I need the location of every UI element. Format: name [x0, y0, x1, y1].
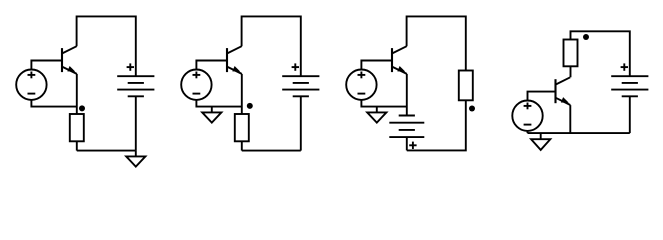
node dot	[247, 103, 253, 109]
wire R2 to bottom rail	[241, 141, 243, 150]
wire Q4 emitter down	[569, 105, 571, 133]
wire Q2 collector riser	[242, 16, 301, 76]
ground	[531, 133, 550, 150]
transistor Q2	[227, 46, 242, 74]
node dot	[469, 106, 475, 112]
resistor R4	[564, 40, 578, 67]
ground	[367, 107, 386, 123]
wire V3- to emitter node	[361, 100, 406, 107]
voltage source V3	[346, 70, 376, 100]
wire V1+ to Q1 base	[31, 61, 62, 70]
wire R4 to top rail	[571, 31, 630, 76]
wire Q2 emitter to R2	[241, 74, 243, 114]
wire V2- to emitter node	[196, 100, 241, 107]
battery B4	[611, 63, 648, 96]
wire R3 down to bottom rail	[407, 100, 466, 150]
voltage source V1	[16, 70, 46, 100]
battery B3	[389, 116, 424, 150]
wire V3+ to Q3 base	[361, 61, 392, 70]
transistor Q3	[392, 46, 407, 74]
voltage source V4	[512, 101, 542, 131]
node dot	[583, 34, 589, 40]
wire Q1 collector riser	[77, 16, 136, 76]
transistor Q4	[556, 77, 571, 105]
voltage source V2	[181, 70, 211, 100]
node dot	[79, 105, 85, 111]
wire B2- down	[300, 96, 302, 150]
wire B4- down	[629, 96, 631, 133]
transistor Q1	[62, 46, 77, 74]
wire B1- down	[135, 96, 137, 150]
resistor R3	[459, 71, 473, 101]
wire Q3 emitter to B3	[406, 74, 408, 116]
wire bottom rail	[528, 132, 630, 134]
wire Q4 collector to R4	[570, 66, 572, 77]
wire Q1 emitter to R1	[76, 74, 78, 114]
ground	[126, 151, 145, 167]
resistor R2	[235, 114, 249, 141]
battery B2	[282, 63, 319, 96]
ground	[202, 107, 221, 123]
wire bottom rail	[242, 150, 301, 152]
battery B1	[117, 63, 154, 96]
wire R1 to bottom rail	[76, 141, 78, 150]
wire B3+ to bottom rail	[406, 137, 408, 150]
wire V4+ to Q4 base	[528, 92, 556, 101]
wire bottom rail	[77, 150, 136, 152]
resistor R1	[70, 114, 84, 141]
wire V1- to emitter node	[31, 100, 76, 107]
wire V2+ to Q2 base	[196, 61, 227, 70]
wire V4- to bottom rail	[527, 131, 529, 133]
wire Q3 collector riser	[407, 16, 466, 70]
